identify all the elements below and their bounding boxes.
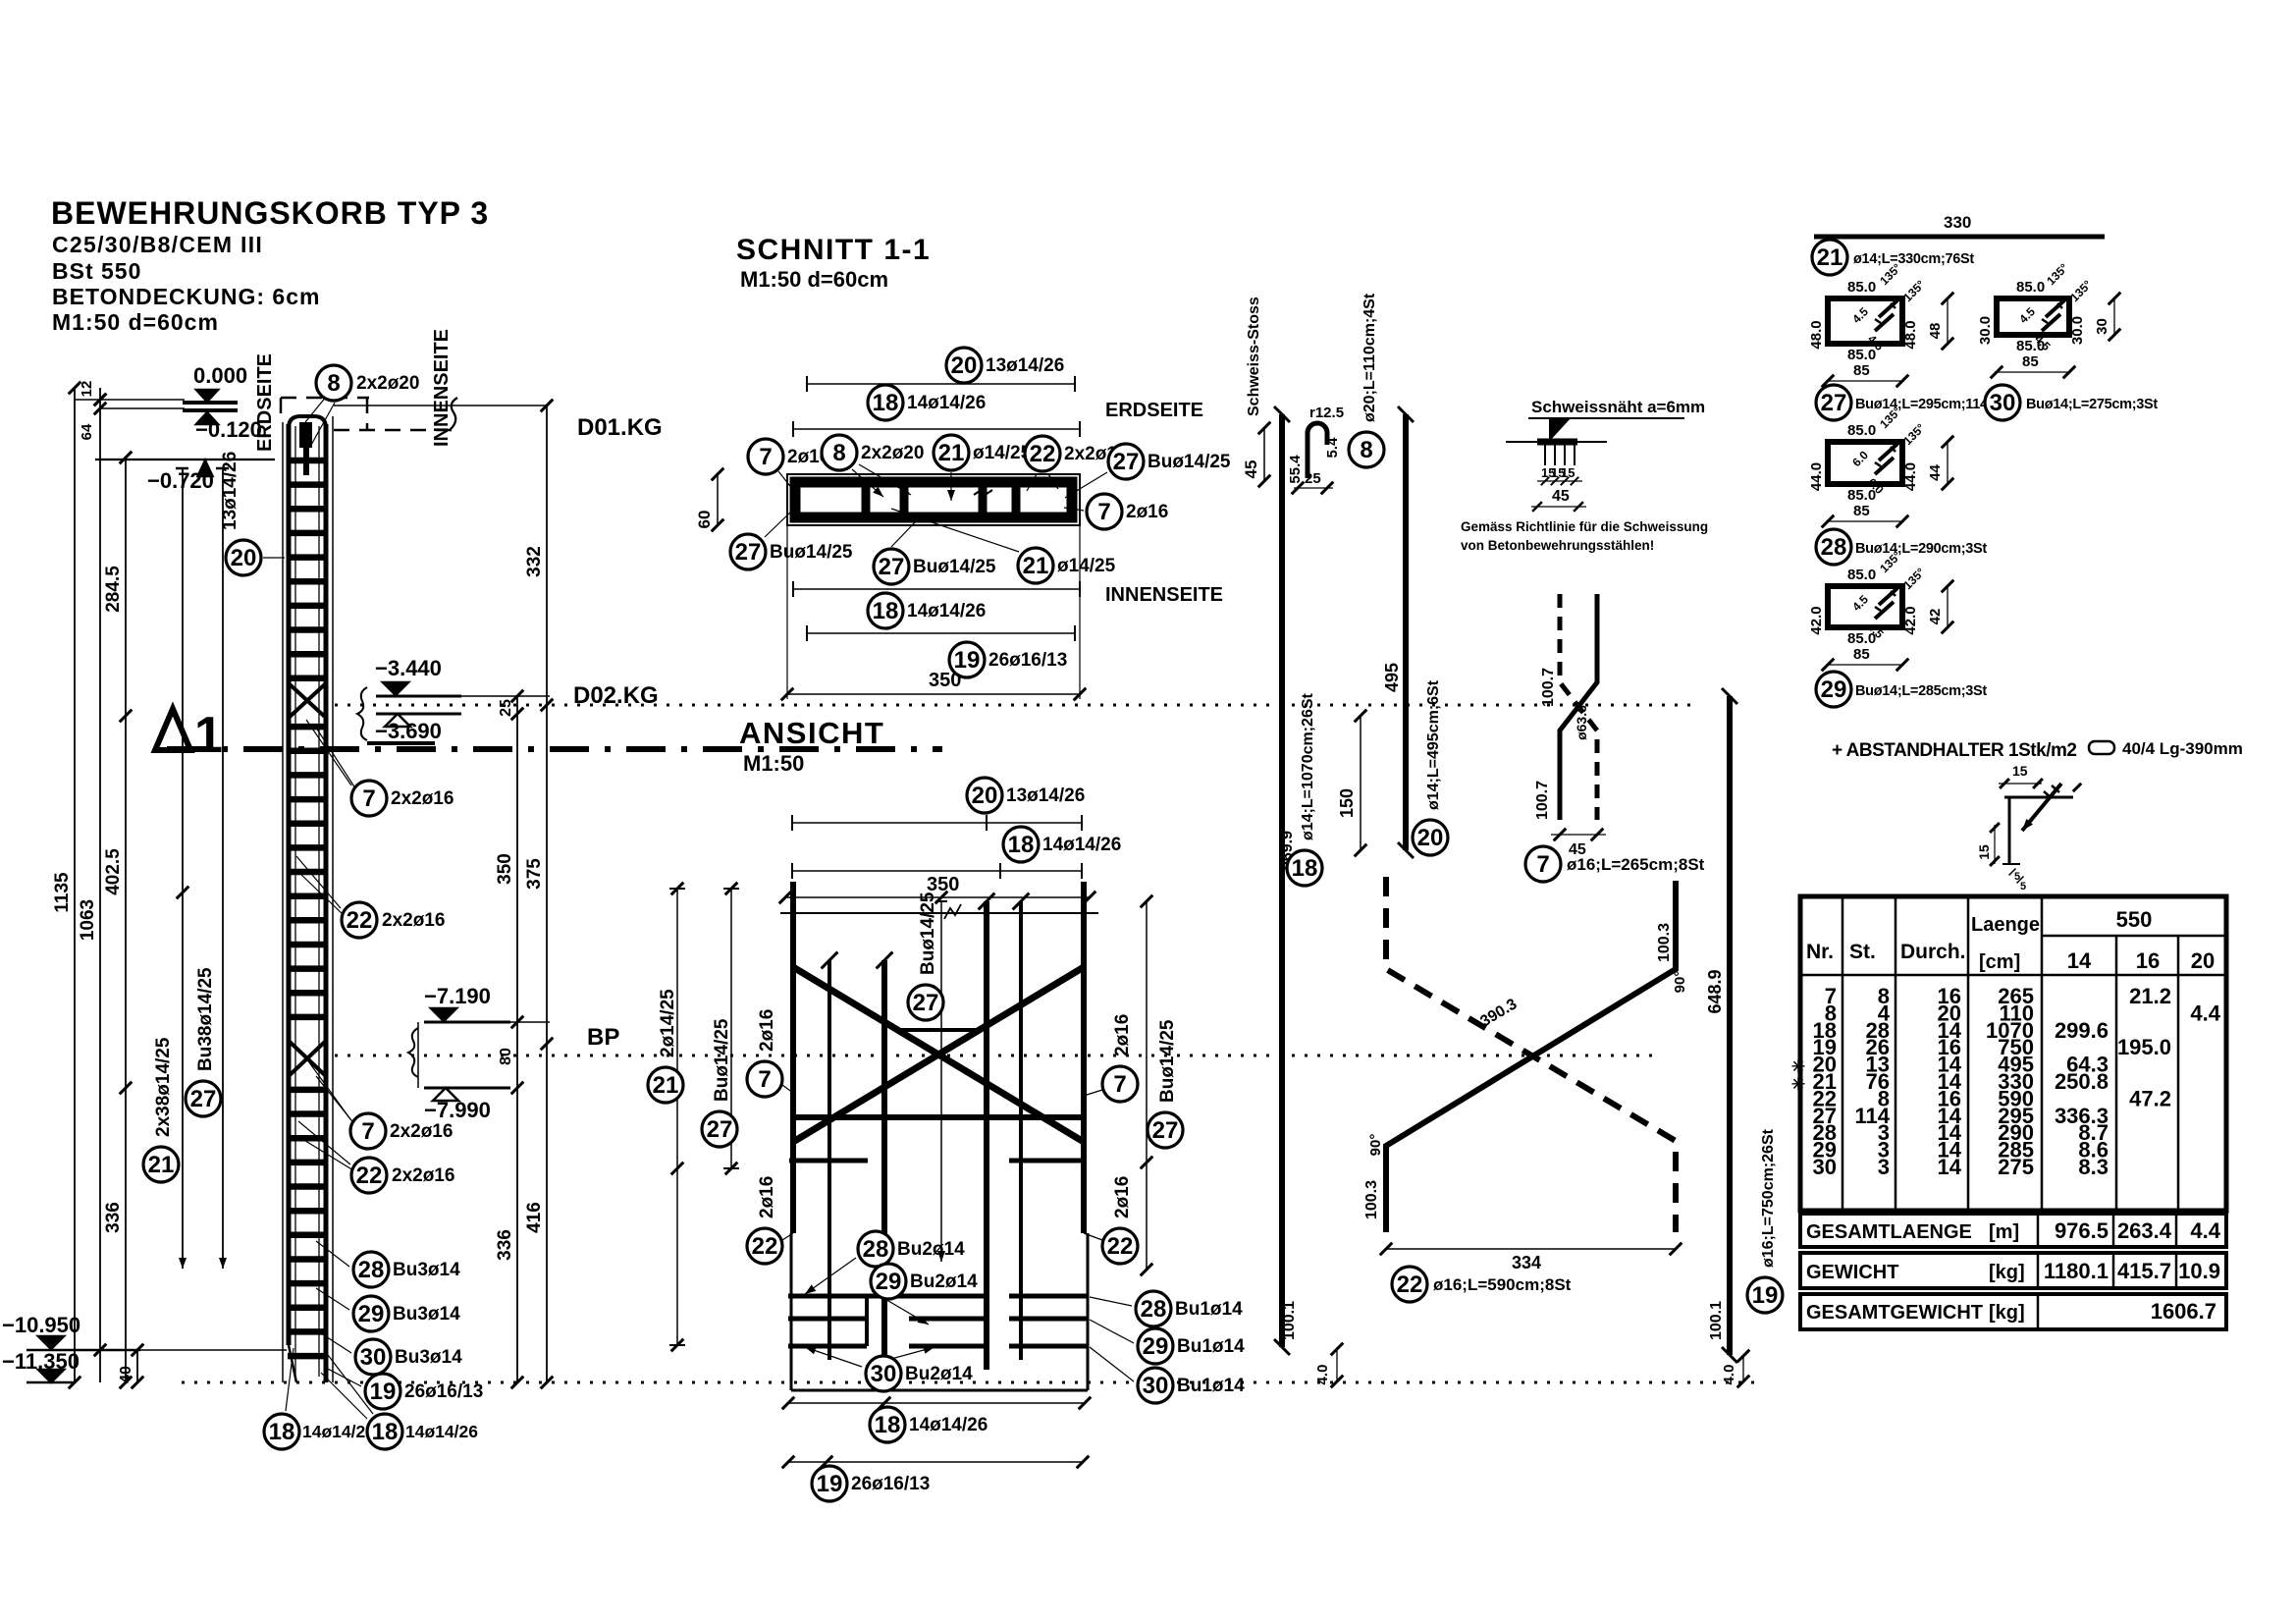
svg-text:ø14;L=1070cm;26St: ø14;L=1070cm;26St — [1300, 692, 1316, 840]
svg-text:INNENSEITE: INNENSEITE — [1105, 584, 1223, 606]
svg-text:20: 20 — [231, 545, 257, 571]
callout 8 top with 2x2ø20 — [305, 396, 327, 422]
svg-text:45: 45 — [1552, 488, 1570, 505]
svg-text:Bu2ø14: Bu2ø14 — [897, 1239, 965, 1260]
dimension 4.0 right — [1742, 1355, 1744, 1382]
svg-text:✳: ✳ — [1791, 1075, 1805, 1094]
callout 27 schnitt bottom-mid Buø14/25 — [891, 522, 915, 547]
ansicht break symbol — [944, 904, 961, 919]
svg-text:415.7: 415.7 — [2117, 1259, 2171, 1283]
ansicht diagonal brace 2 — [793, 967, 1084, 1142]
svg-text:7: 7 — [1097, 499, 1110, 525]
svg-text:21: 21 — [938, 440, 965, 466]
bar 7 splice detail dashed — [1560, 594, 1597, 820]
svg-text:44.0: 44.0 — [1808, 462, 1825, 491]
ansicht left main bar — [790, 882, 796, 1233]
svg-text:7: 7 — [1113, 1071, 1126, 1098]
svg-text:275: 275 — [1998, 1155, 2034, 1179]
ansicht mid chord — [793, 1114, 1084, 1120]
svg-text:336: 336 — [495, 1229, 515, 1261]
dimension line 19 schnitt — [807, 632, 1075, 634]
dimension line 18 schnitt top — [793, 428, 1080, 430]
svg-text:30.0: 30.0 — [2069, 316, 2086, 345]
svg-text:18: 18 — [372, 1419, 399, 1445]
callout 30 ansicht mid Bu2ø14 — [866, 1347, 934, 1366]
stirrup shape 28 — [1828, 442, 1902, 484]
brace at BP — [408, 1028, 418, 1077]
callout 27 ansicht center Buø14/25 — [908, 985, 943, 1020]
svg-text:100.3: 100.3 — [1363, 1180, 1380, 1219]
ansicht inner bar 2 — [881, 960, 887, 1382]
svg-text:−10.950: −10.950 — [2, 1313, 80, 1337]
svg-text:30: 30 — [1990, 390, 2016, 416]
svg-text:Durch.: Durch. — [1900, 941, 1966, 963]
callout 7 schnitt right 2ø16 — [1064, 508, 1084, 511]
svg-text:Buø14/25: Buø14/25 — [1157, 1019, 1178, 1103]
svg-text:−3.690: −3.690 — [375, 719, 442, 743]
level marker -0.720 — [95, 459, 275, 460]
svg-text:20: 20 — [972, 783, 998, 809]
ansicht diagonal brace 1 — [793, 967, 1084, 1142]
svg-text:ø16;L=750cm;26St: ø16;L=750cm;26St — [1760, 1128, 1777, 1268]
svg-text:85: 85 — [1853, 362, 1870, 379]
svg-text:ERDSEITE: ERDSEITE — [1105, 400, 1203, 421]
ansicht left dim line 27 — [730, 889, 732, 1168]
svg-text:26ø16/13: 26ø16/13 — [988, 650, 1067, 671]
svg-text:195.0: 195.0 — [2117, 1035, 2171, 1059]
svg-text:[cm]: [cm] — [1979, 951, 2020, 973]
svg-text:85: 85 — [1853, 503, 1870, 519]
svg-text:BETONDECKUNG: 6cm: BETONDECKUNG: 6cm — [52, 284, 320, 309]
svg-text:Buø14/25: Buø14/25 — [918, 892, 938, 975]
svg-text:21: 21 — [148, 1152, 175, 1178]
callout 21 schnitt ø14/25 — [950, 472, 952, 501]
svg-text:GEWICHT: GEWICHT — [1806, 1262, 1898, 1283]
svg-text:90°: 90° — [1367, 1134, 1384, 1157]
svg-text:21.2: 21.2 — [2129, 984, 2171, 1008]
callout 18 ladder right 14ø14/26 — [321, 1373, 367, 1419]
stirrup shape 27 — [1828, 298, 1902, 344]
callout 30 shape Buø14 L=275cm 3St — [1985, 385, 2020, 420]
table footer GESAMTGEWICHT — [1800, 1294, 2226, 1329]
callout 22 ansicht right 2ø16 — [1084, 1233, 1102, 1240]
svg-text:90°: 90° — [1672, 971, 1688, 994]
svg-text:27: 27 — [707, 1116, 733, 1143]
stirrup shape 29 — [1828, 586, 1902, 627]
callout 22 schnitt 2x2ø16 — [1027, 474, 1037, 491]
svg-text:1135: 1135 — [52, 872, 73, 913]
svg-text:85.0: 85.0 — [1847, 567, 1876, 583]
ansicht bottom dim line 18 — [788, 1402, 1085, 1404]
svg-text:ø14/25: ø14/25 — [1057, 556, 1116, 576]
svg-text:[kg]: [kg] — [1989, 1262, 2025, 1283]
svg-text:14ø14/26: 14ø14/26 — [907, 601, 986, 622]
callout 21 schnitt bottom ø14/25 — [891, 509, 1019, 552]
svg-text:64: 64 — [79, 423, 95, 440]
ansicht lower boundary left — [790, 1233, 793, 1390]
svg-text:30.0: 30.0 — [1977, 316, 1994, 345]
svg-text:19: 19 — [370, 1379, 397, 1405]
svg-text:100.7: 100.7 — [1534, 781, 1551, 820]
dimension line 1063 — [99, 388, 101, 1382]
dimension line 25/350/80/336 — [516, 696, 518, 1382]
svg-text:Buø14/25: Buø14/25 — [712, 1018, 732, 1102]
svg-text:14ø14/26: 14ø14/26 — [1042, 835, 1121, 855]
svg-text:7: 7 — [1536, 851, 1549, 878]
svg-text:976.5: 976.5 — [2055, 1218, 2109, 1243]
brace at -3.44 — [357, 687, 367, 740]
svg-text:55.4: 55.4 — [1287, 455, 1304, 484]
callout 30 ladder Bu3ø14 — [318, 1331, 351, 1353]
svg-text:85: 85 — [2022, 353, 2039, 370]
svg-text:[m]: [m] — [1989, 1221, 2019, 1243]
ansicht bottom row connector — [865, 1296, 869, 1346]
svg-text:20: 20 — [951, 352, 978, 379]
svg-text:−0.120: −0.120 — [195, 417, 262, 442]
svg-text:330: 330 — [1944, 213, 1971, 232]
abstandhalter symbol small — [2089, 741, 2114, 754]
svg-text:19: 19 — [817, 1471, 843, 1497]
svg-text:1063: 1063 — [78, 899, 98, 941]
svg-text:18: 18 — [1008, 832, 1035, 858]
level line bottom -11.350 dotted — [182, 1381, 1757, 1384]
svg-text:25: 25 — [1305, 470, 1321, 487]
svg-text:1606.7: 1606.7 — [2151, 1299, 2216, 1324]
ansicht left dim line 21 — [676, 889, 678, 1345]
ansicht lower boundary right — [1087, 1233, 1090, 1390]
svg-text:8: 8 — [832, 440, 845, 466]
bar 7 splice detail solid — [1560, 594, 1597, 820]
callout 20 long bar ø14 L=495cm 6St — [1413, 820, 1448, 855]
svg-text:8.3: 8.3 — [2078, 1155, 2109, 1179]
svg-text:22: 22 — [752, 1233, 778, 1260]
svg-text:Schweiss-Stoss: Schweiss-Stoss — [1246, 297, 1262, 416]
svg-text:27: 27 — [735, 539, 762, 566]
svg-text:648.9: 648.9 — [1705, 969, 1725, 1013]
svg-text:BSt 550: BSt 550 — [52, 258, 141, 284]
ansicht top chord line — [780, 912, 1098, 914]
svg-text:85.0: 85.0 — [1847, 279, 1876, 296]
svg-text:150: 150 — [1337, 788, 1357, 818]
callout 27 left ladder — [186, 1081, 221, 1116]
svg-text:29: 29 — [876, 1269, 902, 1295]
svg-text:336: 336 — [103, 1202, 124, 1233]
svg-text:ø14/25: ø14/25 — [973, 443, 1032, 463]
bar 19 long vertical line — [1727, 696, 1733, 1355]
svg-text:27: 27 — [879, 554, 905, 580]
svg-text:ø14;L=330cm;76St: ø14;L=330cm;76St — [1853, 251, 1974, 267]
svg-text:4.4: 4.4 — [2190, 1218, 2220, 1243]
svg-text:350: 350 — [929, 670, 961, 691]
svg-text:27: 27 — [1152, 1117, 1179, 1144]
callout 7 splice ø16 L=265cm 8St — [1525, 846, 1561, 882]
svg-text:4.0: 4.0 — [1314, 1365, 1331, 1385]
callout 8 hook ø20 L=110cm 4St — [1349, 432, 1384, 467]
dimension 60 schnitt — [717, 474, 719, 525]
callout 21 shape ø14 L=330cm 76St — [1812, 240, 1847, 275]
callout 29 ansicht mid Bu2ø14 — [872, 1291, 929, 1325]
svg-text:550: 550 — [2116, 907, 2153, 932]
svg-text:30: 30 — [1813, 1155, 1837, 1179]
svg-text:21: 21 — [1817, 244, 1843, 271]
ansicht bottom row 3 — [788, 1344, 867, 1349]
svg-text:14ø14/26: 14ø14/26 — [909, 1415, 988, 1435]
svg-text:22: 22 — [1107, 1233, 1134, 1260]
svg-text:INNENSEITE: INNENSEITE — [431, 329, 453, 447]
svg-text:Bu1ø14: Bu1ø14 — [1175, 1299, 1243, 1320]
svg-text:von Betonbewehrungsstählen!: von Betonbewehrungsstählen! — [1461, 538, 1654, 553]
svg-text:495: 495 — [1382, 663, 1402, 692]
svg-text:2x2ø16: 2x2ø16 — [392, 1165, 454, 1186]
svg-text:Bu1ø14: Bu1ø14 — [1177, 1336, 1245, 1357]
svg-text:GESAMTGEWICHT: GESAMTGEWICHT — [1806, 1302, 1983, 1324]
ladder rounded top — [289, 416, 326, 428]
svg-text:ANSICHT: ANSICHT — [739, 716, 884, 750]
callout 28 shape Buø14 L=290cm 3St — [1816, 529, 1851, 565]
svg-text:BP: BP — [587, 1024, 619, 1051]
ansicht inner bar 1 — [828, 960, 831, 1360]
ladder longitudinal bars — [294, 426, 296, 1377]
callout 22 big X ø16 L=590cm 8St — [1392, 1267, 1427, 1302]
svg-text:21: 21 — [653, 1072, 679, 1099]
svg-text:5: 5 — [2020, 881, 2026, 893]
svg-text:2x2ø16: 2x2ø16 — [382, 910, 445, 931]
dimension line 1135 — [74, 388, 76, 1382]
ansicht inner bar 3 — [984, 901, 989, 1370]
svg-text:7: 7 — [759, 444, 772, 470]
dimension 25 hook — [1294, 487, 1333, 489]
dimension line 2845/4025/336 — [125, 458, 127, 1382]
dimension line 27 left — [222, 468, 224, 1269]
ansicht right main bar — [1081, 882, 1087, 1233]
svg-text:18: 18 — [873, 390, 899, 416]
svg-text:15: 15 — [1976, 844, 1992, 860]
svg-text:42: 42 — [1927, 609, 1944, 625]
svg-text:−3.440: −3.440 — [375, 656, 442, 680]
svg-text:263.4: 263.4 — [2117, 1218, 2172, 1243]
table column lines — [1842, 896, 1844, 1211]
level marker -3.690 — [376, 713, 461, 716]
svg-text:48.0: 48.0 — [1902, 320, 1919, 349]
callout 27 ansicht right Buø14/25 — [1148, 1112, 1183, 1148]
svg-text:334: 334 — [1512, 1253, 1541, 1272]
svg-text:20: 20 — [2191, 948, 2215, 973]
svg-text:85: 85 — [1853, 646, 1870, 663]
svg-text:13ø14/26: 13ø14/26 — [1006, 785, 1085, 806]
svg-text:ø16;L=265cm;8St: ø16;L=265cm;8St — [1567, 855, 1705, 874]
svg-text:14ø14/26: 14ø14/26 — [302, 1422, 375, 1441]
svg-text:40/4 Lg-390mm: 40/4 Lg-390mm — [2122, 739, 2243, 758]
svg-text:2ø14/25: 2ø14/25 — [658, 989, 678, 1057]
callout 18 ansicht 14ø14/26 — [1003, 827, 1039, 862]
svg-text:Bu3ø14: Bu3ø14 — [393, 1304, 460, 1325]
callout 28 ladder Bu3ø14 — [316, 1241, 349, 1267]
svg-text:ø16;L=590cm;8St: ø16;L=590cm;8St — [1433, 1275, 1572, 1294]
svg-text:2ø16: 2ø16 — [757, 1009, 777, 1052]
callout 19 ladder 26ø16/13 — [324, 1367, 361, 1386]
svg-text:30: 30 — [2094, 318, 2110, 335]
svg-text:250.8: 250.8 — [2055, 1069, 2109, 1094]
svg-text:2x2ø20: 2x2ø20 — [356, 373, 419, 394]
svg-text:40: 40 — [118, 1366, 134, 1383]
svg-text:3: 3 — [1878, 1155, 1890, 1179]
svg-text:St.: St. — [1849, 941, 1876, 963]
svg-text:85.0: 85.0 — [1847, 422, 1876, 439]
svg-text:Buø14/25: Buø14/25 — [770, 542, 853, 563]
dimension line 18 schnitt bottom — [793, 588, 1080, 590]
svg-text:60: 60 — [695, 511, 714, 529]
callout 7 ladder lower 2x2ø16 — [309, 1062, 350, 1119]
svg-text:Nr.: Nr. — [1806, 941, 1834, 963]
svg-text:44.0: 44.0 — [1902, 462, 1919, 491]
dimension 150 — [1360, 716, 1362, 850]
svg-text:2ø16: 2ø16 — [1112, 1014, 1133, 1056]
svg-text:8: 8 — [327, 370, 340, 397]
svg-text:M1:50: M1:50 — [743, 751, 804, 776]
svg-text:19: 19 — [1752, 1282, 1779, 1309]
callout 18 long bar ø14 L=1070cm 26St — [1287, 850, 1322, 886]
weld flag triangle — [1549, 418, 1571, 442]
callout 21 left ladder — [143, 1147, 179, 1182]
svg-text:[kg]: [kg] — [1989, 1302, 2025, 1324]
weld bar thin — [1506, 441, 1607, 443]
ladder X motif 2 — [289, 1041, 326, 1076]
bar 21 straight line 330 — [1814, 235, 2105, 240]
dimension 334 big X — [1386, 1248, 1676, 1250]
svg-text:22: 22 — [1030, 441, 1056, 467]
svg-text:85.0: 85.0 — [2016, 279, 2045, 296]
ansicht bottom row 1 — [788, 1294, 985, 1299]
svg-text:80: 80 — [498, 1048, 514, 1065]
svg-text:ø14;L=495cm;6St: ø14;L=495cm;6St — [1425, 679, 1442, 810]
dimension line 18 ansicht — [792, 870, 1082, 872]
callout 28 ansicht mid Bu2ø14 — [805, 1258, 856, 1294]
svg-text:27: 27 — [190, 1086, 217, 1112]
svg-text:29: 29 — [1821, 676, 1847, 703]
formwork break symbol — [450, 398, 457, 430]
svg-text:22: 22 — [356, 1163, 383, 1189]
svg-text:375: 375 — [524, 858, 545, 890]
svg-text:0.000: 0.000 — [193, 363, 247, 388]
callout 22 ladder lower 2x2ø16 — [298, 1121, 350, 1164]
svg-text:14ø14/26: 14ø14/26 — [907, 393, 986, 413]
dimension line left inner — [182, 468, 184, 1269]
dimension line 40 bottom left — [136, 1350, 138, 1382]
svg-text:350: 350 — [495, 853, 515, 885]
level line BP dotted — [335, 1055, 1653, 1057]
svg-text:15: 15 — [2012, 763, 2028, 779]
callout 7 ansicht left 2ø16 — [782, 1085, 793, 1093]
svg-text:47.2: 47.2 — [2129, 1086, 2171, 1110]
callout 21 ansicht left 2ø14/25 — [648, 1067, 683, 1103]
ansicht center dim line 27 — [940, 901, 942, 1262]
level line D02.KG dotted — [335, 704, 1693, 707]
svg-text:18: 18 — [1292, 855, 1318, 882]
callout 7 schnitt top-left 2ø16 — [778, 471, 793, 490]
svg-text:10.9: 10.9 — [2178, 1259, 2220, 1283]
svg-text:402.5: 402.5 — [103, 848, 124, 895]
callout 28 ansicht right Bu1ø14 — [1090, 1297, 1132, 1306]
svg-text:14ø14/26: 14ø14/26 — [405, 1422, 478, 1441]
svg-text:1180.1: 1180.1 — [2044, 1259, 2109, 1283]
dimension 4.0 left — [1336, 1347, 1338, 1382]
level marker -7.990 — [424, 1087, 510, 1090]
callout 18 ansicht bottom 14ø14/26 — [870, 1407, 905, 1442]
callout 18 schnitt 14ø14/26 — [868, 385, 903, 420]
svg-text:SCHNITT 1-1: SCHNITT 1-1 — [736, 234, 931, 266]
bar 22 big X solid — [1386, 881, 1676, 1232]
svg-text:Bu3ø14: Bu3ø14 — [393, 1260, 460, 1280]
svg-text:18: 18 — [875, 1412, 901, 1438]
callout 27 schnitt bottom-left Buø14/25 — [765, 512, 791, 537]
svg-text:45: 45 — [1242, 460, 1260, 479]
svg-text:30: 30 — [360, 1344, 387, 1371]
line ladder top to D01 — [334, 405, 547, 406]
svg-text:85.0: 85.0 — [1847, 347, 1876, 363]
svg-text:16: 16 — [2136, 948, 2160, 973]
ansicht right dim line — [1146, 901, 1148, 1270]
svg-text:7: 7 — [362, 785, 375, 812]
table header separator — [1800, 974, 2226, 977]
svg-text:42.0: 42.0 — [1808, 606, 1825, 634]
svg-text:28: 28 — [863, 1236, 889, 1263]
bar 8 hook detail — [1308, 423, 1327, 478]
callout 18 schnitt bottom 14ø14/26 — [868, 593, 903, 628]
svg-text:+ ABSTANDHALTER 1Stk/m2: + ABSTANDHALTER 1Stk/m2 — [1832, 740, 2076, 761]
callout 29 ansicht right Bu1ø14 — [1090, 1320, 1134, 1343]
svg-text:D02.KG: D02.KG — [573, 682, 659, 709]
svg-text:8: 8 — [1360, 437, 1372, 463]
svg-text:100.7: 100.7 — [1540, 668, 1557, 707]
ladder rungs — [288, 458, 327, 464]
svg-text:7: 7 — [361, 1118, 374, 1145]
svg-text:12: 12 — [79, 381, 95, 398]
svg-text:5.4: 5.4 — [1324, 437, 1341, 459]
svg-text:GESAMTLAENGE: GESAMTLAENGE — [1806, 1221, 1972, 1243]
svg-text:BEWEHRUNGSKORB TYP 3: BEWEHRUNGSKORB TYP 3 — [51, 195, 489, 231]
svg-text:Schweissnäht a=6mm: Schweissnäht a=6mm — [1531, 398, 1705, 416]
svg-text:M1:50 d=60cm: M1:50 d=60cm — [740, 267, 888, 292]
callout 8 schnitt 2x2ø20 — [852, 469, 883, 497]
svg-text:C25/30/B8/CEM III: C25/30/B8/CEM III — [52, 232, 263, 257]
callout 22 ansicht left 2ø16 — [782, 1233, 793, 1240]
svg-text:Bu38ø14/25: Bu38ø14/25 — [195, 967, 216, 1071]
beam stirrup thick frame — [795, 482, 1072, 517]
section line 1-1 dash-dot — [167, 746, 942, 752]
ladder left rails — [282, 422, 284, 1382]
svg-text:Buø14;L=275cm;3St: Buø14;L=275cm;3St — [2026, 397, 2158, 412]
svg-text:2x2ø20: 2x2ø20 — [861, 443, 924, 463]
svg-text:29: 29 — [1143, 1333, 1169, 1360]
svg-text:ERDSEITE: ERDSEITE — [254, 353, 276, 452]
table footer GEWICHT — [1800, 1253, 2226, 1288]
svg-text:22: 22 — [347, 907, 373, 934]
svg-text:18: 18 — [269, 1419, 295, 1445]
callout 18 ladder left 14ø14/26 — [286, 1348, 294, 1411]
svg-text:D01.KG: D01.KG — [577, 414, 663, 441]
ladder X motif 1 — [289, 683, 326, 718]
ladder formwork dashed outline — [281, 397, 369, 400]
svg-text:28: 28 — [358, 1257, 385, 1283]
svg-text:13ø14/26: 13ø14/26 — [220, 452, 240, 530]
table 550 subheader line — [2042, 935, 2226, 938]
callout 27 schnitt top-right Buø14/25 — [1065, 472, 1107, 498]
svg-text:28: 28 — [1141, 1296, 1167, 1323]
svg-text:ø20;L=110cm;4St: ø20;L=110cm;4St — [1362, 293, 1378, 422]
svg-text:299.6: 299.6 — [2055, 1018, 2109, 1043]
svg-text:26ø16/13: 26ø16/13 — [404, 1381, 483, 1402]
svg-text:Bu2ø14: Bu2ø14 — [910, 1271, 978, 1292]
